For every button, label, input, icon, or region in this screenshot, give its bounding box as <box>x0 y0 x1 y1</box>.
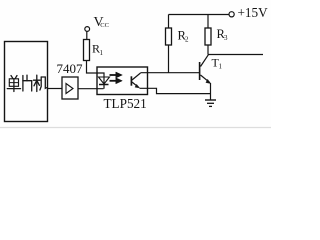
单 <box>11 76 13 79</box>
optocoupler U1 box <box>97 67 148 95</box>
svg-text:+15V: +15V <box>238 5 269 20</box>
svg-text:2: 2 <box>185 36 189 44</box>
light arrows <box>110 72 123 84</box>
svg-text:3: 3 <box>224 34 228 42</box>
collector line <box>132 73 141 80</box>
buffer 7407 box <box>62 77 78 99</box>
emitter line with arrow <box>132 82 139 87</box>
resistor R3 <box>205 28 211 45</box>
label 单片机 (hand-drawn CJK strokes) <box>7 75 46 91</box>
resistor R2 <box>166 28 172 45</box>
svg-text:1: 1 <box>100 49 104 57</box>
LED diode inside optocoupler <box>99 77 110 84</box>
wire MCU to 7407 input <box>48 88 62 90</box>
svg-text:TLP521: TLP521 <box>104 96 147 111</box>
wire rail to R3 <box>207 15 209 29</box>
T1 emitter with arrow <box>201 75 211 83</box>
+15V terminal circle <box>229 12 234 17</box>
resistor R1 <box>84 40 90 61</box>
机 <box>34 79 41 81</box>
svg-text:1: 1 <box>219 63 223 71</box>
T1 collector <box>201 55 209 67</box>
+15V rail <box>169 14 230 16</box>
Vcc terminal circle <box>85 27 90 32</box>
wire 7407 output to optocoupler LED cathode <box>78 88 104 90</box>
scan artifact line at bottom <box>0 127 271 129</box>
wire R3 to collector node <box>207 45 209 55</box>
ground <box>205 100 216 106</box>
svg-text:CC: CC <box>100 22 109 29</box>
wire opto collector to R2 node and T1 base <box>141 72 200 74</box>
wire opto emitter to ground node <box>140 88 211 93</box>
片 <box>22 76 24 92</box>
wire emitter to ground <box>210 83 212 100</box>
wire rail to R2 <box>168 15 170 29</box>
wire R1 to LED anode <box>87 61 105 85</box>
transistor T1 <box>199 62 201 80</box>
output wire from collector node <box>208 54 263 56</box>
wire Vcc to R1 <box>86 32 88 40</box>
phototransistor inside optocoupler <box>130 76 132 85</box>
microcontroller box 单片机 <box>5 42 48 122</box>
wire R2 to base node <box>168 45 170 73</box>
buffer triangle <box>66 84 73 94</box>
svg-text:7407: 7407 <box>57 61 84 76</box>
